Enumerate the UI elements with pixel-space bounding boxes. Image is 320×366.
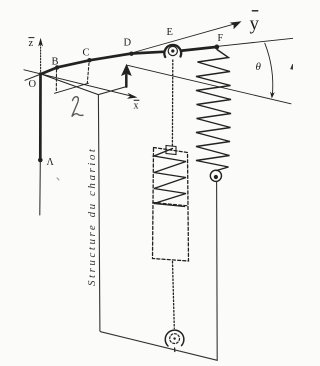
x-axis line with arrowhead	[24, 70, 135, 97]
damper rod lower dotted	[173, 262, 175, 329]
label y bar	[250, 11, 260, 35]
plate edge V to corner	[98, 87, 126, 95]
theta arc with arrowhead	[265, 43, 273, 95]
pulley E inner circle	[168, 46, 177, 55]
faint pencil tick near A	[57, 178, 59, 180]
wheel inner dashed circle	[170, 334, 180, 344]
label O	[29, 79, 37, 90]
dashed drop from B	[55, 70, 57, 93]
thick up arrow head	[121, 64, 132, 76]
structure du chariot text	[86, 148, 98, 286]
y-axis arrowhead	[230, 21, 242, 29]
label A	[47, 157, 55, 168]
svg-text:E: E	[167, 27, 173, 38]
thick mast O to A	[39, 74, 42, 161]
label D	[124, 38, 132, 49]
pulley E outer arc	[164, 45, 181, 57]
label E	[167, 27, 173, 38]
point C dot	[87, 58, 91, 62]
label z bar	[29, 38, 35, 49]
damper piston plate dashed	[153, 203, 188, 206]
label x bar	[134, 100, 140, 111]
svg-text:y: y	[250, 14, 260, 35]
svg-text:D: D	[124, 38, 132, 49]
z-axis arrowhead	[38, 38, 43, 47]
point F dot	[214, 45, 219, 50]
main bar O-B-C-D-E-F thick	[41, 52, 163, 74]
plate inner edge	[55, 83, 89, 93]
spring bottom circle dot	[214, 175, 218, 179]
main bar segment pulley to F	[182, 47, 217, 51]
frame left vertical	[98, 95, 217, 361]
point D dot	[129, 52, 133, 56]
dashed drop from C	[87, 63, 89, 83]
pulley E center dot	[171, 49, 174, 52]
thin bar extension left of O	[25, 74, 41, 80]
big spring zigzag	[196, 50, 231, 171]
svg-text:C: C	[83, 48, 90, 59]
spring bottom circle	[210, 170, 221, 181]
svg-text:F: F	[218, 33, 224, 44]
plate edge O to V	[41, 74, 98, 95]
z-axis dotted line	[40, 45, 42, 72]
rod from pulley to damper dotted	[171, 60, 173, 147]
svg-text:x: x	[134, 101, 139, 112]
svg-text:z: z	[29, 38, 34, 49]
label C	[83, 48, 90, 59]
wheel stem	[174, 348, 176, 352]
thin bar extension right of F	[218, 38, 293, 46]
damper piston small box	[166, 146, 176, 155]
thick up arrow shaft	[125, 75, 128, 87]
frame right vertical	[216, 182, 219, 361]
damper coil	[154, 149, 186, 207]
wheel outer arc	[165, 330, 184, 346]
wheel center dot	[173, 337, 175, 339]
lower angle line from arrow tip to right	[128, 65, 292, 104]
svg-text:O: O	[29, 79, 37, 90]
point B dot	[55, 65, 59, 69]
point A dot	[38, 158, 43, 163]
svg-text:Structure du chariot: Structure du chariot	[86, 148, 98, 286]
label theta	[256, 61, 262, 73]
handwritten 2 annotation	[72, 97, 83, 117]
svg-text:Λ: Λ	[47, 157, 55, 168]
y-axis line from D over pulley	[132, 23, 239, 53]
stray glyph fragment at right edge	[291, 64, 293, 69]
damper dashed box	[153, 148, 189, 262]
svg-text:θ: θ	[256, 61, 262, 73]
label F	[218, 33, 224, 44]
label B	[52, 57, 59, 68]
thin mast continuation below A	[39, 160, 42, 215]
svg-text:B: B	[52, 57, 59, 68]
